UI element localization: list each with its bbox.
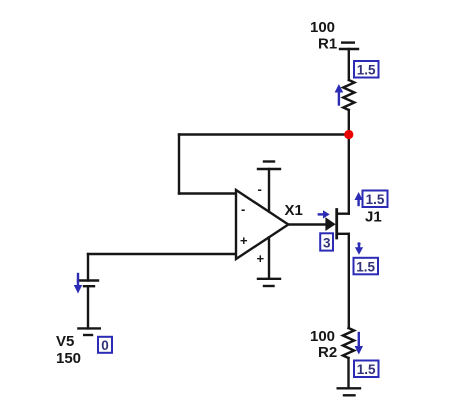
svg-text:1.5: 1.5 — [357, 362, 376, 377]
svg-text:100: 100 — [310, 328, 335, 345]
svg-text:V5: V5 — [56, 333, 74, 350]
svg-text:100: 100 — [310, 19, 335, 36]
svg-text:+: + — [240, 233, 248, 248]
wire J1 source down to R2 — [348, 234, 350, 328]
resistor R1 — [343, 80, 354, 110]
voltage box 1.5 at R1 — [354, 61, 379, 78]
svg-text:-: - — [241, 202, 245, 217]
power rail symbol at R1 top — [340, 43, 358, 49]
current arrow V5 (blue, down) — [74, 274, 82, 294]
svg-text:J1: J1 — [365, 209, 382, 226]
svg-text:R1: R1 — [318, 36, 337, 53]
svg-text:150: 150 — [56, 350, 81, 367]
current arrow at J1 source (blue, down) — [355, 242, 363, 255]
wire feedback top horizontal — [179, 133, 349, 135]
op-amp positive supply pin — [268, 169, 270, 212]
svg-text:1.5: 1.5 — [366, 192, 385, 207]
svg-text:1.5: 1.5 — [356, 259, 375, 274]
svg-text:0: 0 — [101, 338, 109, 353]
voltage box 0 at V5 — [98, 337, 112, 353]
voltage box 1.5 at source — [354, 258, 379, 275]
wire noninverting input — [88, 253, 236, 255]
current arrow at J1 gate (blue, right) — [319, 210, 330, 218]
wire node to J1 drain lead — [348, 135, 350, 214]
wire R2 to ground — [347, 358, 349, 388]
svg-text:+: + — [257, 251, 265, 266]
svg-text:R2: R2 — [318, 344, 337, 361]
battery V5 — [78, 281, 100, 336]
svg-text:-: - — [258, 182, 262, 197]
current arrow at J1 drain (blue, up) — [355, 192, 363, 205]
resistor R2 — [343, 328, 354, 358]
current arrow R1 (blue, up) — [335, 84, 344, 105]
voltage box 3 at gate — [320, 233, 333, 250]
op-amp X1 — [236, 190, 288, 259]
svg-text:1.5: 1.5 — [357, 63, 376, 78]
op-amp negative supply pin — [268, 238, 270, 279]
voltage box 1.5 at drain — [363, 191, 388, 208]
wire feedback to inverting input — [179, 192, 236, 194]
wire op-amp output to J1 gate — [288, 223, 326, 225]
wire R1 bottom to node — [348, 110, 350, 135]
transistor J1 — [325, 210, 348, 239]
node junction (red) — [344, 130, 353, 139]
wire feedback left vertical — [178, 135, 180, 194]
power rail symbol below op-amp — [258, 279, 280, 286]
ground — [338, 388, 360, 395]
power rail symbol above op-amp — [258, 162, 280, 170]
current arrow R2 (blue, down) — [355, 333, 363, 355]
wire V5 top lead — [87, 254, 89, 281]
svg-text:3: 3 — [323, 236, 331, 251]
wire R1 top lead — [348, 49, 350, 80]
voltage box 1.5 at R2 — [354, 361, 379, 378]
svg-text:X1: X1 — [285, 202, 303, 219]
